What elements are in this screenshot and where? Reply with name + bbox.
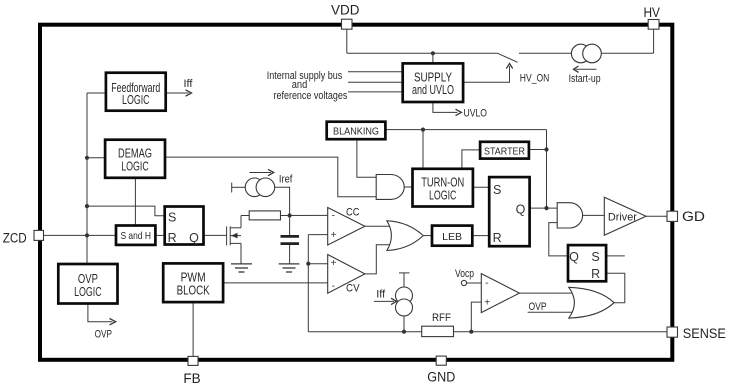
svg-text:R: R bbox=[493, 231, 502, 245]
svg-text:Q: Q bbox=[569, 250, 579, 264]
junction starter node bbox=[544, 147, 548, 151]
wire right vertical to Q node bbox=[546, 130, 548, 209]
wire demag input bbox=[87, 157, 105, 159]
wire OR1 to LEB bbox=[423, 235, 432, 237]
wire VDD rail to switch bbox=[347, 52, 498, 54]
svg-text:LOGIC: LOGIC bbox=[429, 188, 457, 202]
resistor RFF bbox=[422, 326, 454, 336]
wire PWM to FB bbox=[192, 302, 194, 356]
wire FF Q output bbox=[530, 207, 558, 209]
wire ZCD to S and H bbox=[44, 234, 117, 236]
wire sense vertical bbox=[307, 235, 309, 332]
wire sense rail right bbox=[454, 331, 668, 333]
junction ZCD node bbox=[85, 233, 89, 237]
wire FF1 Q to MOSFET gate bbox=[204, 234, 227, 236]
block TURN-ON LOGIC bbox=[413, 169, 473, 207]
current source Iff bbox=[374, 273, 413, 332]
svg-text:S: S bbox=[591, 250, 599, 264]
wire feedforward input bbox=[87, 92, 106, 94]
svg-text:-: - bbox=[332, 281, 335, 292]
block LEB bbox=[432, 226, 472, 246]
wire Iff output arrow bbox=[166, 92, 189, 94]
wire CV plus branch bbox=[308, 263, 327, 265]
junction Vocp rail bbox=[469, 330, 473, 334]
svg-text:Iff: Iff bbox=[184, 78, 194, 90]
comparator Vocp bbox=[461, 274, 519, 313]
svg-text:OVP: OVP bbox=[529, 301, 547, 313]
svg-text:LOGIC: LOGIC bbox=[74, 285, 102, 299]
block BLANKING bbox=[327, 122, 386, 140]
wire left bus vertical bbox=[86, 93, 88, 264]
block SUPPLY and UVLO bbox=[403, 63, 463, 102]
junction demag input bbox=[85, 156, 89, 160]
wire sense rail left bbox=[308, 331, 421, 333]
wire S and H to FF1 R bbox=[155, 234, 164, 236]
svg-text:VDD: VDD bbox=[331, 3, 360, 18]
wire to FF1 S input bbox=[87, 206, 165, 216]
svg-text:+: + bbox=[331, 258, 337, 269]
ground C1 bbox=[279, 264, 300, 272]
svg-text:and UVLO: and UVLO bbox=[412, 83, 454, 97]
wire OVP LOGIC output arrow bbox=[88, 304, 113, 322]
svg-text:LOGIC: LOGIC bbox=[121, 159, 149, 173]
wire HV drop bbox=[653, 29, 655, 53]
flip-flop FF big bbox=[489, 177, 529, 246]
svg-text:+: + bbox=[484, 298, 490, 309]
wire Vocp plus input bbox=[471, 302, 481, 332]
wire AND2 lower input from FF2 Q bbox=[549, 223, 568, 256]
block OVP LOGIC bbox=[58, 264, 117, 304]
wire PWM to CV minus bbox=[223, 282, 328, 284]
svg-text:+: + bbox=[331, 230, 337, 241]
junction S wire bbox=[85, 204, 89, 208]
svg-text:R: R bbox=[591, 267, 600, 281]
wire OR2 to FF2 R bbox=[606, 273, 625, 302]
block STARTER bbox=[480, 142, 529, 159]
svg-text:SENSE: SENSE bbox=[683, 326, 726, 341]
op-amp CC bbox=[328, 208, 365, 246]
junction VDD/supply bbox=[431, 51, 435, 55]
svg-text:Driver: Driver bbox=[608, 211, 637, 223]
svg-text:-: - bbox=[485, 278, 488, 289]
svg-text:LEB: LEB bbox=[442, 231, 462, 243]
op-amp CV bbox=[328, 255, 365, 294]
svg-text:HV_ON: HV_ON bbox=[520, 72, 550, 84]
svg-text:-: - bbox=[332, 210, 335, 221]
svg-text:OVP: OVP bbox=[95, 329, 112, 341]
svg-text:FB: FB bbox=[183, 371, 200, 386]
svg-text:STARTER: STARTER bbox=[484, 146, 525, 158]
junction res/cap node bbox=[288, 213, 292, 217]
junction Q node bbox=[544, 206, 548, 210]
pin SENSE bbox=[667, 326, 726, 341]
transistor M1 bbox=[227, 216, 241, 264]
wire resistor left bbox=[241, 215, 249, 217]
svg-text:S: S bbox=[168, 211, 176, 225]
junction blanking/turn-on bbox=[421, 128, 425, 132]
IC boundary bbox=[40, 25, 672, 360]
block S and H bbox=[116, 226, 155, 245]
wire HV_ON control arrow bbox=[463, 66, 509, 82]
svg-text:R: R bbox=[168, 231, 177, 245]
wire Istart-up to HV bbox=[601, 52, 653, 54]
resistor R1 bbox=[249, 211, 280, 220]
wire CV out to OR1 bbox=[365, 245, 391, 274]
and-gate AND2 bbox=[557, 203, 582, 228]
pin ZCD bbox=[3, 230, 44, 245]
wire supply top feed bbox=[432, 53, 434, 63]
pin VDD bbox=[331, 3, 360, 30]
svg-text:CC: CC bbox=[346, 207, 360, 219]
wire VDD drop bbox=[346, 29, 348, 53]
wire bus line 2 bbox=[348, 81, 403, 83]
current source Iref bbox=[232, 169, 290, 215]
pin GD bbox=[667, 209, 705, 224]
svg-text:CV: CV bbox=[346, 283, 360, 295]
capacitor C1 bbox=[281, 216, 300, 264]
svg-text:Q: Q bbox=[189, 231, 199, 245]
wire OVP input to OR2 bbox=[528, 311, 573, 313]
svg-text:Q: Q bbox=[516, 202, 526, 216]
wire BLANKING right bbox=[385, 129, 546, 131]
wire TURN-ON to FF S bbox=[473, 186, 489, 188]
wire AND1 out bbox=[404, 186, 412, 188]
svg-text:reference voltages: reference voltages bbox=[274, 90, 348, 102]
svg-text:S and H: S and H bbox=[120, 230, 151, 242]
svg-text:Vocp: Vocp bbox=[455, 268, 474, 280]
svg-text:GD: GD bbox=[682, 209, 705, 224]
wire STARTER right bbox=[529, 149, 547, 151]
wire LEB to FF R bbox=[472, 235, 489, 237]
wire DEMAG output bbox=[165, 157, 376, 197]
svg-text:Iref: Iref bbox=[279, 173, 293, 185]
op-amp Driver bbox=[604, 197, 646, 235]
pin FB bbox=[183, 356, 200, 386]
current source Istart-up bbox=[571, 44, 601, 72]
svg-text:Iff: Iff bbox=[376, 288, 386, 300]
svg-text:UVLO: UVLO bbox=[464, 107, 488, 119]
wire Driver to GD bbox=[646, 215, 667, 217]
wire resistor right to CC minus bbox=[281, 214, 328, 216]
wire bus line 1 bbox=[348, 71, 403, 73]
svg-text:ZCD: ZCD bbox=[3, 231, 27, 246]
block PWM BLOCK bbox=[163, 263, 223, 302]
ground M1 source bbox=[231, 264, 252, 272]
svg-text:RFF: RFF bbox=[432, 312, 451, 324]
svg-text:Istart-up: Istart-up bbox=[569, 73, 601, 85]
wire switch to Istart-up bbox=[519, 52, 571, 54]
junction CV plus bbox=[306, 262, 310, 266]
wire bus line 3 bbox=[348, 91, 403, 93]
svg-text:S: S bbox=[493, 183, 501, 197]
svg-text:LOGIC: LOGIC bbox=[122, 93, 150, 107]
pin HV bbox=[643, 5, 660, 29]
pin GND bbox=[427, 356, 455, 385]
wire AND2 out to Driver bbox=[583, 214, 605, 216]
flip-flop FF1 bbox=[165, 207, 204, 245]
or-gate OR1 bbox=[387, 221, 423, 251]
or-gate OR2 bbox=[569, 287, 614, 318]
wire STARTER to TURN-ON bbox=[462, 150, 480, 169]
wire CC plus branch bbox=[308, 234, 327, 236]
block DEMAG LOGIC bbox=[105, 140, 165, 178]
and-gate AND1 bbox=[376, 175, 404, 200]
wire BLANKING down to AND1 bbox=[357, 139, 376, 177]
svg-text:GND: GND bbox=[427, 370, 455, 385]
wire CC out to OR1 bbox=[365, 225, 391, 227]
svg-text:BLANKING: BLANKING bbox=[333, 126, 379, 138]
svg-text:HV: HV bbox=[643, 5, 660, 20]
wire UVLO output bbox=[433, 102, 458, 112]
switch blade HV_ON bbox=[497, 53, 517, 62]
wire to TURN-ON top bbox=[422, 130, 424, 169]
junction Iff rail bbox=[402, 330, 406, 334]
wire Vocp out to OR2 bbox=[519, 292, 573, 294]
svg-text:BLOCK: BLOCK bbox=[177, 283, 211, 297]
block Feedforward LOGIC bbox=[106, 73, 166, 111]
wire FF2 S stub bbox=[606, 255, 625, 257]
flip-flop FF2 bbox=[568, 245, 606, 281]
wire DEMAG to S and H bbox=[134, 178, 136, 226]
